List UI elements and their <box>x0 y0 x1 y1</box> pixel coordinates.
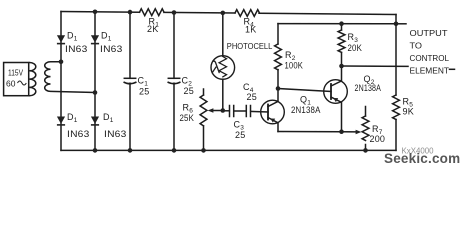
svg-text:25: 25 <box>184 86 194 96</box>
transistor Q2 collector lead <box>331 66 342 86</box>
photocell lambda symbol <box>212 61 219 73</box>
wire output upper dash <box>396 23 406 25</box>
wire emitter node to R7 arrow <box>342 131 357 133</box>
transistor Q2 emitter lead <box>331 97 342 132</box>
wire right vertical rail lower <box>395 120 397 151</box>
transistor Q2 base bar <box>330 84 332 99</box>
svg-text:25K: 25K <box>180 113 195 123</box>
wire R6 bottom lead <box>203 126 205 150</box>
wire bottom rail <box>61 149 396 151</box>
svg-text:20K: 20K <box>348 43 363 53</box>
svg-text:IN63: IN63 <box>104 129 127 139</box>
transistor Q1 base bar <box>267 105 269 120</box>
node Q1 collector / R2 / Q2 base <box>276 86 281 91</box>
svg-text:OUTPUT: OUTPUT <box>410 28 449 38</box>
svg-text:25: 25 <box>247 92 257 102</box>
svg-text:IN63: IN63 <box>100 44 123 54</box>
resistor R4 <box>235 10 260 17</box>
svg-text:2N138A: 2N138A <box>291 105 321 115</box>
wire second rail <box>278 23 396 25</box>
wire C4 to Q1 base <box>251 110 268 113</box>
potentiometer R7 stub <box>365 107 367 117</box>
svg-text:IN63: IN63 <box>67 129 90 139</box>
svg-text:1K: 1K <box>245 25 256 35</box>
node top rail at C1 <box>128 10 133 15</box>
svg-text:D1: D1 <box>67 31 78 43</box>
node second rail at R3 <box>339 21 344 26</box>
wire output to control element <box>342 65 409 67</box>
node top rail at photocell <box>221 11 226 16</box>
transistor Q1 collector lead <box>268 89 278 107</box>
transistor Q2 circle <box>324 80 348 104</box>
diode D1 top-left <box>57 35 65 43</box>
svg-text:9K: 9K <box>403 107 414 117</box>
resistor R2 <box>275 44 282 70</box>
svg-text:D1: D1 <box>67 112 78 124</box>
svg-text:CONTROL: CONTROL <box>410 53 450 63</box>
svg-text:2K: 2K <box>147 24 158 34</box>
wire wiper to C3 <box>223 110 230 112</box>
node secondary-bottom junction <box>93 90 98 95</box>
potentiometer R6 stub <box>203 89 205 95</box>
resistor R3 <box>338 30 345 52</box>
capacitor C2 branch wires <box>173 13 175 79</box>
svg-text:60: 60 <box>6 79 16 89</box>
diode D1 top-right <box>91 35 99 43</box>
svg-text:115V: 115V <box>8 68 23 78</box>
node bottom rail at C1 <box>128 148 133 153</box>
capacitor C4 plates <box>245 106 247 117</box>
node emitter wire at Q2 <box>339 129 344 134</box>
svg-text:IN63: IN63 <box>65 44 88 54</box>
wire second vertical rail <box>94 12 96 151</box>
R7 wiper arrowhead <box>356 130 362 135</box>
resistor R5 <box>393 95 400 120</box>
svg-text:25: 25 <box>139 87 149 97</box>
resistor R6 <box>200 95 207 126</box>
node bottom rail at second vertical <box>93 148 98 153</box>
diode D1 bottom-left <box>57 117 65 125</box>
wire Q1 collector node to Q2 base <box>278 89 331 92</box>
wire R2 bottom lead <box>277 70 279 89</box>
node top rail at C2 <box>172 10 177 15</box>
wire top rail right segment <box>259 13 396 14</box>
svg-text:2N138A: 2N138A <box>355 83 382 93</box>
node bottom rail at R6 <box>201 148 206 153</box>
power source box 115V 60Hz <box>4 63 29 96</box>
svg-text:ELEMENT: ELEMENT <box>410 66 450 76</box>
wire Q1 emitter to R7 <box>278 131 342 133</box>
svg-text:200: 200 <box>370 134 386 144</box>
svg-text:25: 25 <box>235 130 245 140</box>
svg-text:100K: 100K <box>285 61 304 71</box>
Q1 emitter arrowhead <box>270 119 275 123</box>
node bottom rail at R7 <box>363 148 368 153</box>
node bottom rail at C2 <box>172 148 177 153</box>
node top rail at second vertical <box>93 10 98 15</box>
capacitor C3 plates <box>229 106 231 117</box>
photocell circle <box>211 56 235 80</box>
wire R6 wiper <box>212 110 223 112</box>
wire R3 bottom lead <box>341 52 343 66</box>
svg-text:Seekic.com: Seekic.com <box>384 151 460 166</box>
transistor Q1 emitter lead <box>268 118 278 132</box>
svg-text:D1: D1 <box>103 112 114 124</box>
output element dash <box>450 68 455 70</box>
wire R7 bottom lead <box>365 145 367 151</box>
svg-text:PHOTOCELL: PHOTOCELL <box>227 41 273 51</box>
transformer T1 secondary winding <box>45 62 95 93</box>
capacitor C1 plates <box>124 77 135 79</box>
diode D1 bottom-right <box>91 117 99 125</box>
node R3 / Q2 collector / output <box>339 64 344 69</box>
resistor R3 top lead <box>341 24 343 30</box>
wire left vertical rail <box>60 12 62 151</box>
R6 wiper arrowhead <box>208 108 214 113</box>
node second rail at right vertical <box>394 22 399 27</box>
capacitor C2 plates <box>168 77 179 79</box>
wire C3 to C4 <box>234 110 246 112</box>
capacitor C1 branch wires <box>129 12 131 78</box>
wire top rail middle segment <box>164 11 235 14</box>
wire right vertical rail upper <box>395 15 397 96</box>
resistor R2 branch top <box>277 24 279 44</box>
photocell internal zigzag <box>219 57 227 77</box>
photocell branch wires <box>222 13 224 56</box>
svg-text:D1: D1 <box>101 31 112 43</box>
node secondary-top junction <box>59 60 64 65</box>
resistor R1 <box>140 9 165 16</box>
wire top rail left segment <box>61 11 140 14</box>
transistor Q1 circle <box>261 100 285 124</box>
Q2 emitter arrowhead <box>333 98 338 102</box>
svg-text:TO: TO <box>410 41 423 51</box>
resistor R7 <box>362 116 369 141</box>
node wiper junction <box>221 108 226 113</box>
transformer T1 primary winding <box>30 63 36 96</box>
